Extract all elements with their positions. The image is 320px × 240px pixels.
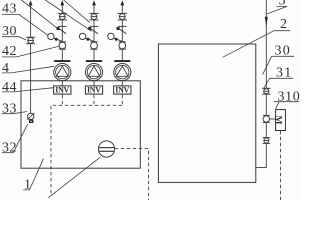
- inlet valve (item 30 left): [26, 37, 35, 44]
- leader from cropped top label to branch3 check valve upper: [64, 0, 90, 23]
- control wire stub from INV 2: [61, 95, 63, 106]
- water tank 1: [21, 81, 140, 168]
- branch 3 pressure gauge: [79, 33, 85, 39]
- actuator control wire: [280, 131, 282, 200]
- leader from cropped top label to branch3 check valve lower: [45, 0, 91, 31]
- branch 4 outlet flow arrow: [120, 0, 124, 5]
- liquid level controller (circle symbol): [98, 141, 114, 157]
- feed pipe 5 (right riser): [256, 0, 266, 168]
- branch 4 check valve: [118, 25, 126, 27]
- branch 3 check valve: [90, 25, 98, 27]
- branch 3 flexible joint (42 type): [90, 42, 97, 49]
- svg-text:INV: INV: [87, 85, 101, 94]
- branch 2 flexible joint (42 type): [59, 42, 66, 49]
- motor actuator M box (item 310): [276, 110, 286, 131]
- pump branch 4 pipe riser: [121, 4, 123, 60]
- inlet pipe riser (item 3): [30, 4, 32, 113]
- branch 3 shutoff valve (43 type): [89, 13, 98, 20]
- svg-text:2: 2: [280, 17, 287, 32]
- motor operated valve body: [263, 115, 270, 122]
- svg-text:44: 44: [2, 80, 17, 95]
- control wire stub from INV 4: [121, 95, 123, 106]
- branch 2 suction line through inverter: [61, 81, 63, 95]
- inlet pipe flow arrow: [29, 0, 33, 5]
- branch 2 check valve: [58, 25, 66, 27]
- control wire stub from INV 3: [93, 95, 95, 106]
- branch 2 outlet flow arrow: [60, 0, 64, 5]
- branch 2 shutoff valve (43 type): [58, 13, 67, 20]
- controller leader line from bottom left: [48, 157, 100, 198]
- inverter INV box (item 44) branch 4: [114, 86, 131, 94]
- svg-text:INV: INV: [115, 85, 129, 94]
- branch 4 shutoff valve (43 type): [118, 13, 127, 20]
- svg-text:INV: INV: [55, 85, 69, 94]
- control wire from level controller to right: [115, 149, 149, 200]
- float valve body (item 32 tip): [29, 120, 33, 123]
- pump 2 (item 4): [54, 60, 70, 62]
- leader from cropped top label to branch2 check valve: [21, 0, 57, 28]
- branch 4 pressure gauge: [108, 33, 114, 39]
- branch 3 suction line through inverter: [93, 81, 95, 95]
- svg-text:33: 33: [2, 101, 17, 116]
- feed pipe downward flow arrow: [265, 17, 268, 27]
- float valve ball (item 33): [28, 113, 34, 119]
- branch 4 flexible joint (42 type): [119, 42, 126, 49]
- inverter INV box (item 44) branch 3: [85, 86, 102, 94]
- branch 3 outlet flow arrow: [92, 0, 96, 5]
- control wire bus: [51, 105, 122, 193]
- branch 2 pressure gauge: [48, 33, 54, 39]
- svg-text:4: 4: [2, 61, 10, 76]
- feed valve (item 31): [262, 88, 270, 94]
- svg-text:1: 1: [24, 178, 32, 193]
- svg-text:M: M: [272, 116, 282, 125]
- pump branch 2 pipe riser: [61, 4, 63, 60]
- reservoir tank 2: [158, 44, 255, 182]
- pump 3 (item 4): [86, 60, 102, 62]
- branch 4 suction line through inverter: [121, 81, 123, 95]
- inverter INV box (item 44) branch 2: [54, 86, 71, 94]
- link valve to actuator: [270, 118, 276, 120]
- lower feed valve (item 30 right): [263, 138, 271, 144]
- svg-text:32: 32: [2, 141, 17, 156]
- pump 4 (item 4): [114, 60, 130, 62]
- pump branch 3 pipe riser: [93, 4, 95, 60]
